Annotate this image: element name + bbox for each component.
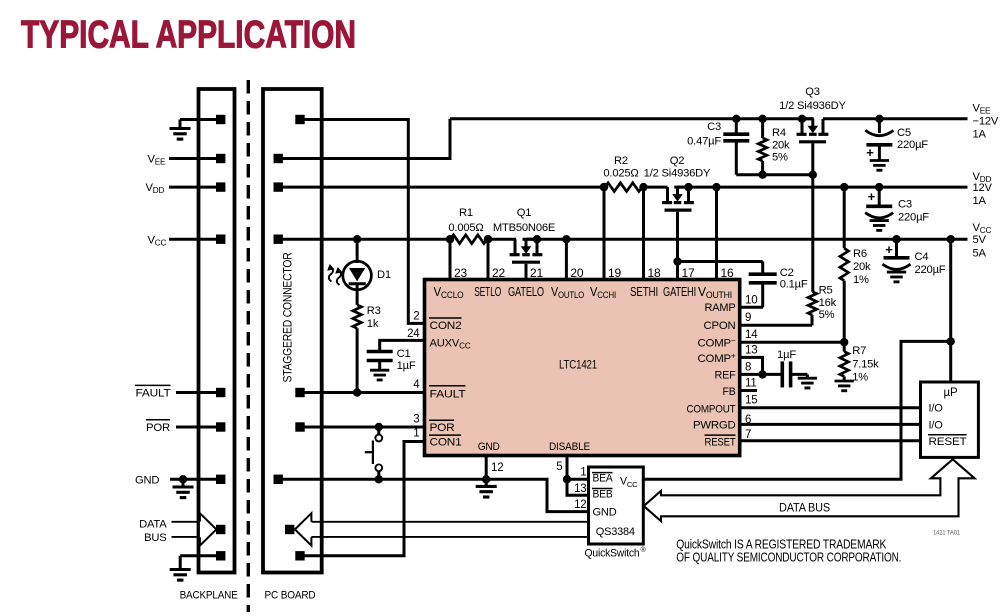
label VCC right	[973, 222, 992, 259]
resistor R4	[758, 115, 767, 175]
svg-text:RESET: RESET	[929, 436, 967, 448]
wire VEE rail left	[450, 117, 814, 120]
label DATA BUS backplane	[139, 519, 167, 544]
svg-text:STAGGERED CONNECTOR: STAGGERED CONNECTOR	[281, 252, 295, 382]
IC right pin names	[687, 302, 737, 448]
svg-text:R3: R3	[367, 305, 381, 317]
svg-text:FB: FB	[723, 386, 736, 398]
wire R4/C3 tie to Q3 gate	[736, 171, 817, 179]
backplane DATA BUS pin	[216, 525, 225, 534]
svg-text:PC BOARD: PC BOARD	[265, 590, 316, 602]
svg-text:24: 24	[407, 328, 420, 340]
pc pin VEE	[274, 154, 283, 163]
svg-text:1µF: 1µF	[397, 360, 416, 372]
svg-text:GND: GND	[135, 474, 159, 486]
svg-text:PWRGD: PWRGD	[693, 420, 736, 432]
label uP IO2	[929, 419, 944, 431]
svg-text:5: 5	[556, 461, 562, 473]
svg-text:TYPICAL APPLICATION: TYPICAL APPLICATION	[21, 14, 356, 57]
pc board label	[265, 590, 316, 602]
svg-text:SETHI: SETHI	[630, 285, 658, 299]
label R6	[853, 248, 871, 286]
svg-text:1µF: 1µF	[777, 349, 796, 361]
staggered connector body	[263, 89, 322, 573]
backplane pin GND	[170, 475, 225, 498]
backplane pin VEE	[169, 154, 225, 163]
svg-text:RESET: RESET	[705, 436, 736, 448]
pin numbers top	[454, 266, 734, 280]
pc pin GND	[274, 475, 283, 484]
svg-text:Q1: Q1	[517, 207, 532, 219]
resistor R5	[808, 175, 817, 326]
backplane pin 1 (ground pin)	[170, 115, 226, 139]
label VEE right	[973, 103, 999, 141]
wire CON1 net	[300, 442, 425, 556]
svg-text:0.005Ω: 0.005Ω	[448, 222, 483, 234]
svg-text:23: 23	[454, 266, 467, 280]
svg-text:16: 16	[721, 266, 734, 280]
svg-text:GND: GND	[593, 506, 618, 518]
wire pin17 GATEHI (Q2 gate)	[676, 212, 679, 280]
pc pin CON2 (long)	[295, 115, 304, 124]
QS3384 body	[589, 467, 644, 544]
label VCC backplane	[148, 235, 167, 248]
resistor R1	[451, 235, 493, 244]
wire FAULT net	[300, 388, 425, 396]
svg-text:2: 2	[413, 311, 419, 323]
svg-text:µP: µP	[944, 387, 958, 399]
label BEB	[592, 489, 613, 501]
wire PWRGD pin6 to uP	[740, 423, 921, 426]
svg-text:220µF: 220µF	[915, 264, 946, 276]
wire pin23 VCCLO	[446, 235, 454, 280]
wire GND net	[278, 475, 588, 512]
svg-text:7.15k: 7.15k	[852, 358, 879, 370]
svg-text:7: 7	[745, 429, 751, 441]
svg-text:C5: C5	[897, 127, 911, 139]
label C1	[397, 348, 416, 372]
svg-text:BEB: BEB	[593, 489, 613, 501]
transistor Q3	[797, 115, 829, 142]
svg-text:1%: 1%	[853, 274, 869, 286]
svg-text:10: 10	[745, 295, 757, 307]
svg-text:DISABLE: DISABLE	[549, 441, 590, 453]
backplane bottom ground pin	[170, 551, 226, 580]
svg-text:20k: 20k	[853, 261, 871, 273]
pc pin VCC	[274, 235, 283, 244]
label VEE backplane	[148, 154, 167, 167]
label Q3	[779, 86, 846, 112]
wire VCC to uP	[947, 235, 955, 382]
label uP RESET	[928, 435, 967, 448]
capacitor 1uF REF	[782, 361, 817, 388]
label FAULT backplane	[135, 385, 171, 399]
label C3 220uF	[898, 199, 929, 224]
resistor R6	[840, 183, 849, 342]
switch pushbutton	[365, 427, 383, 483]
svg-text:SETLO: SETLO	[474, 285, 501, 299]
resistor R3	[353, 305, 362, 393]
IC left pin names	[429, 318, 471, 448]
svg-text:BEA: BEA	[593, 473, 614, 485]
label QS3384	[596, 526, 635, 538]
label C5 plus	[866, 145, 874, 160]
wire CON2 net (pc pin1 to IC pin2)	[300, 120, 425, 324]
label R4	[772, 127, 790, 164]
backplane connector body	[199, 89, 235, 573]
wire COMPOUT pin15 to uP	[740, 406, 921, 409]
svg-text:3: 3	[413, 414, 419, 426]
wire Q3 gate lead	[811, 143, 814, 174]
svg-text:1k: 1k	[367, 318, 379, 330]
svg-text:C3: C3	[707, 121, 721, 133]
label R1	[448, 207, 483, 234]
svg-text:20: 20	[570, 266, 583, 280]
svg-text:12V: 12V	[973, 182, 993, 194]
svg-text:COMP−: COMP−	[698, 336, 737, 350]
wire VCC rail mid	[484, 238, 516, 241]
wire VEE riser	[278, 119, 450, 159]
wire DATA to arrow	[172, 522, 201, 537]
label C4	[915, 251, 946, 276]
svg-text:20k: 20k	[772, 139, 790, 151]
capacitor C3 0.47uF	[723, 115, 749, 175]
pin numbers bottom	[491, 461, 563, 474]
svg-text:1: 1	[580, 467, 586, 479]
svg-text:5V: 5V	[973, 234, 987, 246]
svg-text:0.1µF: 0.1µF	[780, 279, 808, 291]
transistor Q2	[662, 183, 694, 210]
wire pin21 GATELO (Q1 gate)	[525, 264, 528, 280]
diode D1 LED	[327, 235, 371, 305]
label 1uF	[777, 349, 796, 361]
wire REF pin8	[740, 370, 781, 378]
IC top pin names	[434, 285, 733, 300]
svg-text:18: 18	[648, 266, 661, 280]
svg-text:0.47µF: 0.47µF	[687, 136, 721, 148]
svg-text:C4: C4	[915, 251, 929, 263]
svg-text:1A: 1A	[973, 195, 987, 207]
svg-text:CON1: CON1	[430, 436, 462, 448]
pin numbers left	[407, 311, 420, 440]
label R2	[603, 155, 638, 180]
label VDD backplane	[146, 182, 165, 195]
pc pin POR	[295, 422, 304, 431]
wire FB pin11 stub	[740, 389, 757, 392]
svg-text:5A: 5A	[973, 247, 987, 259]
label QuickSwitch	[585, 546, 647, 560]
wire COMP- pin14	[740, 338, 849, 346]
svg-text:R2: R2	[614, 155, 628, 167]
svg-text:16k: 16k	[819, 297, 837, 309]
capacitor C3 220uF	[865, 183, 893, 230]
svg-text:I/O: I/O	[929, 403, 944, 415]
svg-text:1/2 Si4936DY: 1/2 Si4936DY	[779, 100, 846, 112]
svg-text:9: 9	[745, 312, 751, 324]
svg-text:DATA BUS: DATA BUS	[779, 500, 830, 514]
label C5	[897, 127, 928, 151]
wire VEE rail right	[823, 117, 968, 120]
backplane pin VCC	[169, 235, 225, 244]
svg-text:POR: POR	[430, 422, 455, 434]
svg-text:Q3: Q3	[805, 86, 820, 98]
label Q2	[644, 155, 711, 180]
svg-text:−12V: −12V	[973, 116, 999, 128]
label VDD right	[973, 171, 993, 207]
svg-text:1/2 Si4936DY: 1/2 Si4936DY	[644, 168, 711, 180]
svg-text:CPON: CPON	[704, 320, 736, 332]
svg-text:R7: R7	[852, 345, 866, 357]
pin number 12 QS	[574, 499, 586, 511]
wire pin19 VCCHI	[600, 183, 608, 280]
svg-text:CON2: CON2	[430, 320, 462, 332]
label C3 220uF plus	[868, 189, 876, 204]
svg-text:6: 6	[745, 414, 751, 426]
svg-text:17: 17	[682, 266, 695, 280]
pc pin CON1 (long)	[295, 551, 304, 560]
svg-text:QS3384: QS3384	[596, 526, 635, 538]
svg-text:19: 19	[608, 266, 621, 280]
label QS VCC	[620, 476, 638, 489]
svg-text:DATA: DATA	[139, 519, 167, 531]
resistor R2	[600, 183, 642, 192]
staggered connector label	[281, 252, 295, 382]
resistor R7	[835, 342, 854, 391]
wire pc data bus lines	[311, 522, 588, 537]
ground at IC pin12	[476, 456, 497, 498]
label BEA	[592, 473, 614, 485]
svg-text:5%: 5%	[772, 152, 788, 164]
label C2	[780, 267, 808, 291]
backplane pin FAULT	[176, 388, 225, 397]
label 1421 TA01	[933, 530, 960, 537]
svg-text:I/O: I/O	[929, 419, 944, 431]
wire RAMP pin10	[740, 306, 763, 309]
svg-text:4: 4	[413, 379, 420, 391]
pin number 13 QS	[574, 483, 586, 495]
label LTC1421	[559, 358, 597, 372]
svg-text:POR: POR	[146, 422, 170, 434]
label D1	[377, 269, 391, 281]
svg-text:R6: R6	[853, 248, 867, 260]
capacitor C5 220uF	[865, 115, 893, 171]
label uP IO1	[929, 403, 944, 415]
svg-text:R4: R4	[772, 127, 786, 139]
pc pin VDD	[274, 182, 283, 191]
svg-text:8: 8	[745, 362, 751, 374]
pin numbers right	[745, 295, 758, 442]
backplane label	[180, 590, 238, 602]
svg-text:REF: REF	[715, 370, 736, 382]
svg-text:22: 22	[492, 266, 505, 280]
svg-text:QuickSwitch: QuickSwitch	[585, 548, 640, 560]
wire pin18 SETHI	[639, 183, 647, 280]
arrow out of pc DATA pin	[295, 513, 312, 545]
wire COMP+ pin13	[740, 357, 763, 374]
svg-text:12: 12	[491, 462, 503, 474]
wire pin16 VOUTHI	[712, 183, 720, 280]
wire VCC rail right	[523, 238, 968, 241]
svg-text:GATELO: GATELO	[508, 285, 544, 299]
svg-text:FAULT: FAULT	[136, 388, 171, 400]
label uP	[944, 387, 958, 399]
label C4 plus	[885, 242, 893, 257]
svg-text:R5: R5	[819, 285, 833, 297]
transistor Q1	[510, 235, 543, 262]
wire VDD rail mid	[644, 186, 668, 189]
svg-text:12: 12	[574, 499, 586, 511]
capacitor C2 0.1uF	[673, 257, 776, 307]
svg-text:FAULT: FAULT	[430, 389, 466, 401]
svg-text:COMP+: COMP+	[698, 351, 737, 365]
label R7	[852, 345, 879, 383]
IC bottom pin names	[478, 441, 590, 453]
pin number 1 QS	[580, 467, 586, 479]
svg-text:220µF: 220µF	[897, 139, 928, 151]
svg-text:+: +	[866, 145, 874, 160]
svg-text:BACKPLANE: BACKPLANE	[180, 590, 238, 602]
svg-text:GND: GND	[478, 441, 500, 453]
svg-text:+: +	[885, 242, 893, 257]
backplane pin POR	[176, 422, 225, 431]
svg-text:1421 TA01: 1421 TA01	[933, 530, 960, 537]
svg-text:C3: C3	[898, 199, 912, 211]
wire AUXVCC pin24 to C1	[380, 340, 425, 350]
label R3	[367, 305, 381, 330]
wire pin20 VOUTLO	[562, 235, 570, 280]
dashed backplane/pc-board separator	[247, 80, 250, 612]
wire VDD rail left	[278, 186, 604, 189]
svg-text:220µF: 220µF	[898, 212, 929, 224]
svg-text:R1: R1	[459, 207, 473, 219]
wire DISABLE pin5 to QS3384	[563, 456, 589, 496]
label DATA BUS	[779, 500, 830, 514]
svg-text:C1: C1	[397, 348, 411, 360]
arrow into backplane DATA pin	[200, 513, 217, 545]
svg-text:13: 13	[745, 345, 757, 357]
svg-text:COMPOUT: COMPOUT	[687, 403, 736, 415]
capacitor C4 220uF	[883, 235, 911, 282]
wire VDD rail right	[674, 186, 967, 189]
wire QS3384 VCC feed	[643, 337, 955, 479]
svg-text:C2: C2	[780, 267, 794, 279]
svg-text:5%: 5%	[819, 309, 835, 321]
label POR backplane	[146, 420, 170, 434]
capacitor C1 1uF	[367, 352, 393, 380]
svg-text:+: +	[868, 189, 876, 204]
pc pin DATA BUS	[285, 525, 294, 534]
svg-text:MTB50N06E: MTB50N06E	[493, 222, 555, 234]
svg-text:RAMP: RAMP	[705, 302, 736, 314]
label C3 0.47uF	[687, 121, 721, 148]
IC U1 LTC1421 body	[425, 280, 740, 456]
label Q1	[493, 207, 555, 234]
svg-text:1%: 1%	[852, 372, 868, 384]
svg-text:1A: 1A	[973, 129, 987, 141]
backplane pin VDD	[169, 182, 225, 191]
label GND backplane	[135, 474, 159, 486]
wire pin22 SETLO	[484, 235, 492, 280]
svg-text:D1: D1	[377, 269, 391, 281]
wire POR net	[300, 423, 425, 431]
wire VCC rail left	[278, 238, 454, 241]
svg-text:BUS: BUS	[144, 532, 166, 544]
wire CPON pin9	[740, 324, 812, 327]
title TYPICAL APPLICATION	[21, 14, 356, 57]
uP body	[921, 382, 979, 457]
trademark note	[676, 537, 901, 565]
svg-text:1: 1	[413, 428, 419, 440]
svg-text:OF QUALITY SEMICONDUCTOR CORPO: OF QUALITY SEMICONDUCTOR CORPORATION.	[676, 550, 901, 565]
DATA BUS hollow arrow	[644, 459, 975, 521]
svg-text:LTC1421: LTC1421	[559, 358, 597, 372]
svg-text:14: 14	[745, 329, 758, 341]
svg-text:11: 11	[745, 378, 757, 390]
svg-text:0.025Ω: 0.025Ω	[603, 168, 638, 180]
svg-text:Q2: Q2	[670, 155, 685, 167]
label R5	[819, 285, 837, 322]
wire RESET pin7 to uP	[740, 439, 921, 442]
svg-text:13: 13	[574, 483, 586, 495]
svg-text:15: 15	[745, 395, 757, 407]
svg-text:21: 21	[530, 266, 543, 280]
svg-text:GATEHI: GATEHI	[663, 285, 696, 299]
label QS GND	[593, 506, 618, 518]
pc pin FAULT (long)	[295, 388, 304, 397]
